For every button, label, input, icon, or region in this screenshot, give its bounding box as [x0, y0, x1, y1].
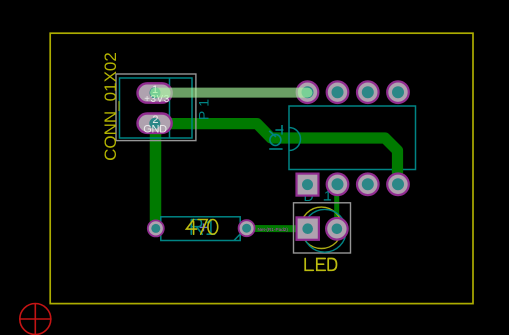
value 470 text (stroke glyphs): [186, 220, 217, 235]
resistor R1 anchor cross (blue): [200, 224, 208, 232]
connector P1 pad 2 (GND oval): [138, 114, 172, 133]
connector pad 2 label: [143, 114, 167, 136]
wire highlighted +3V3 track: connector pad1 to IC top-left pad: [155, 88, 308, 98]
svg-text:Net-(R1-Pad2): Net-(R1-Pad2): [258, 227, 289, 232]
value LED text (stroke glyphs): [305, 259, 336, 271]
LED D1 square pad (pin 1): [297, 217, 319, 239]
LED D1 yellow fab circle: [301, 207, 342, 248]
connector P1 fab gray box: [116, 74, 196, 141]
LED D1 fab gray box: [294, 203, 351, 253]
IC U1 reference designator glyph strokes: [269, 125, 283, 149]
board outline Edge.Cuts: [50, 33, 473, 303]
wire patch: GND trace over IC silk bottom edge: [392, 168, 403, 171]
wire track: IC pad (col2 bottom) down to LED round pad: [334, 185, 339, 229]
connector pad 1 label: [144, 84, 170, 105]
IC U1 silkscreen notch arc: [289, 128, 301, 151]
connector P1 silkscreen divider line: [169, 78, 171, 138]
resistor R1 pad 1: [148, 220, 164, 236]
connector P1 pad 1 (+3V3 oval): [138, 83, 172, 102]
svg-text:CONN_01X02: CONN_01X02: [101, 52, 120, 161]
IC U1 pad row bottom: [327, 174, 409, 196]
connector P1 silkscreen box: [120, 78, 193, 138]
IC U1 pad row top: [297, 81, 409, 103]
svg-text:GND: GND: [143, 124, 167, 136]
LED D1 round pad (pin 2): [326, 218, 348, 240]
wire GND track: connector pad2 down to resistor R1 pad1: [150, 124, 162, 229]
origin marker (red crosshair circle): [19, 303, 52, 335]
wire GND track: connector pad2 right, bends to IC bottom-right pad: [156, 124, 398, 185]
reference R1 text (stroke glyphs): [191, 220, 214, 235]
resistor R1 silkscreen body box: [161, 217, 240, 241]
IC U1 pad 1 square (bottom-left): [297, 174, 319, 196]
LED D1 teal silkscreen circle: [303, 209, 346, 252]
resistor R1 silkscreen corner bevel: [234, 234, 240, 241]
resistor R1 pad 2: [239, 220, 255, 236]
IC U1 silkscreen box: [289, 106, 416, 170]
svg-text:P1: P1: [196, 95, 212, 120]
wire track: resistor R1 pad2 to LED square pad: [247, 225, 308, 232]
